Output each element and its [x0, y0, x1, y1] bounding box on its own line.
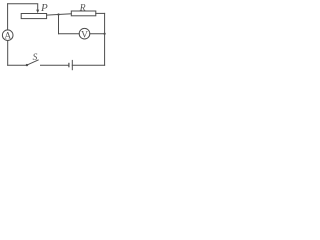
wire top horizontal	[8, 3, 38, 5]
wire rheostat to R (node between)	[47, 14, 72, 15]
wire node down to voltmeter row	[58, 15, 60, 34]
resistor R body	[71, 11, 96, 16]
wire bottom left	[8, 64, 27, 66]
node junction dot (between P and R)	[57, 13, 59, 15]
rheostat wiper arrow	[36, 4, 39, 13]
wire voltmeter right lead	[90, 33, 105, 35]
battery long plate	[71, 60, 73, 70]
svg-text:S: S	[33, 53, 38, 63]
wire left rail lower	[7, 41, 9, 66]
wire bottom middle (switch to battery)	[41, 64, 69, 66]
switch S blade	[27, 60, 39, 65]
wire R right lead	[96, 12, 105, 14]
svg-text:V: V	[81, 30, 88, 40]
battery short plate	[68, 63, 70, 68]
ammeter A	[2, 30, 13, 41]
svg-text:A: A	[4, 32, 11, 42]
voltmeter V	[79, 28, 90, 39]
wire left rail upper	[7, 4, 9, 30]
switch S pivot dot	[26, 64, 28, 66]
svg-text:R: R	[79, 4, 86, 14]
rheostat P body	[21, 14, 46, 19]
svg-text:P: P	[40, 2, 48, 14]
wire bottom right (battery to right corner)	[72, 64, 104, 66]
wire right rail	[104, 13, 106, 65]
wire voltmeter left lead	[59, 33, 80, 35]
node junction dot (voltmeter to right rail)	[104, 33, 106, 35]
